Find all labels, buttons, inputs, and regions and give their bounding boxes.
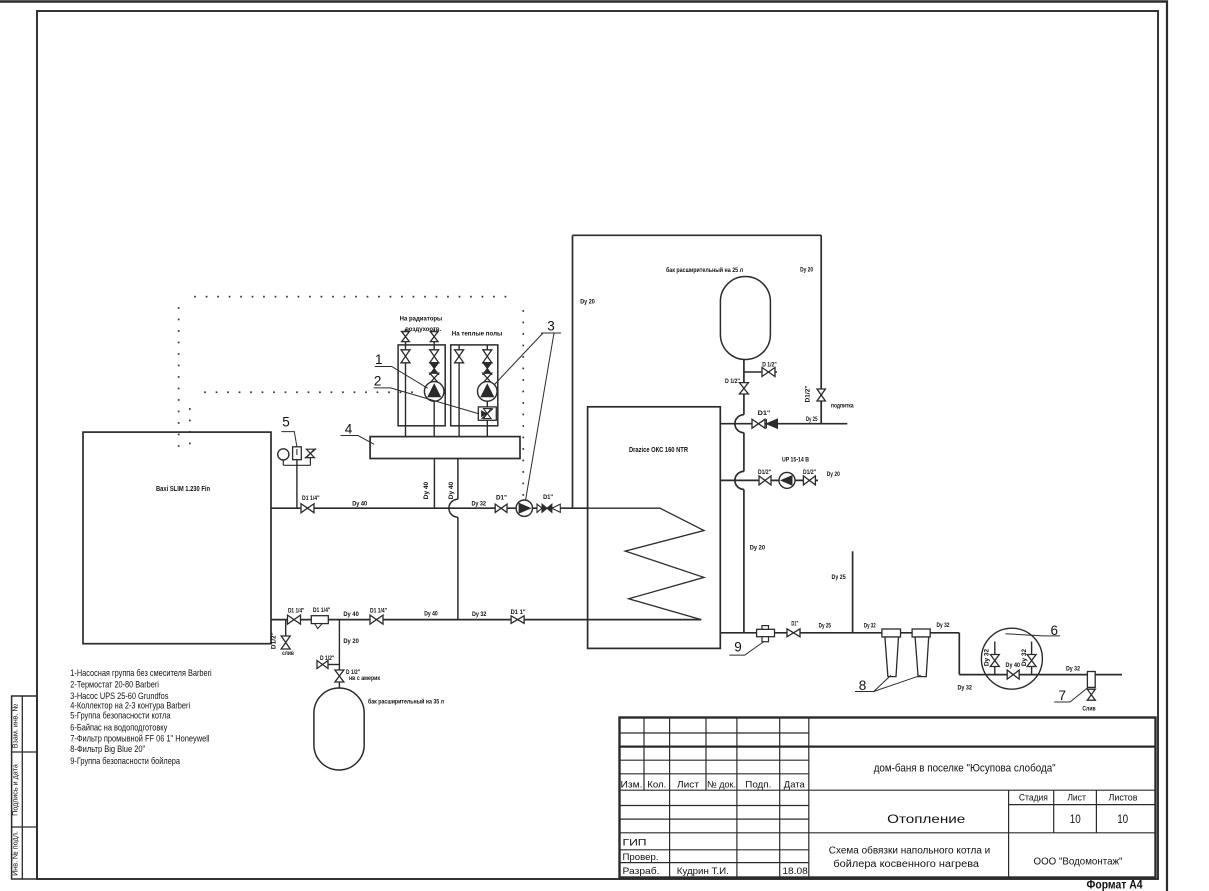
svg-text:D1 1/4": D1 1/4" xyxy=(302,495,320,502)
svg-text:нв с америк: нв с америк xyxy=(349,675,380,682)
svg-text:D1/2": D1/2" xyxy=(271,632,278,649)
svg-text:Dy 40: Dy 40 xyxy=(343,611,359,618)
svg-text:D1 1": D1 1" xyxy=(511,609,526,616)
svg-text:D 1/2": D 1/2" xyxy=(320,655,334,662)
svg-text:Dy 40: Dy 40 xyxy=(424,610,438,617)
svg-text:Инв. № подл.: Инв. № подл. xyxy=(11,831,20,876)
svg-text:8: 8 xyxy=(859,678,867,693)
svg-text:7: 7 xyxy=(1058,688,1066,703)
svg-text:Dy 25: Dy 25 xyxy=(806,416,818,423)
svg-text:Кудрин Т.И.: Кудрин Т.И. xyxy=(677,866,729,877)
svg-text:Dy 20: Dy 20 xyxy=(580,299,595,306)
svg-text:Dy 32: Dy 32 xyxy=(983,648,990,666)
svg-text:4-Коллектор на 2-3 контура Bar: 4-Коллектор на 2-3 контура Barberi xyxy=(70,700,190,710)
svg-text:Стадия: Стадия xyxy=(1019,792,1048,802)
svg-text:4: 4 xyxy=(345,422,353,437)
svg-text:Dy 40: Dy 40 xyxy=(423,481,430,499)
svg-text:Dy 20: Dy 20 xyxy=(800,267,813,274)
svg-text:Dy 32: Dy 32 xyxy=(864,622,876,629)
svg-text:D1 1/4": D1 1/4" xyxy=(288,607,305,614)
svg-text:D 1/2": D 1/2" xyxy=(762,361,777,368)
svg-text:дом-баня в поселке "Юсупова сл: дом-баня в поселке "Юсупова слобода" xyxy=(874,762,1056,774)
svg-text:Провер.: Провер. xyxy=(623,852,659,863)
svg-text:Dy 40: Dy 40 xyxy=(352,501,367,508)
svg-text:Кол.: Кол. xyxy=(647,779,666,790)
svg-text:Dy 32: Dy 32 xyxy=(957,684,972,691)
svg-text:подпитка: подпитка xyxy=(831,403,854,410)
svg-text:Dy 32: Dy 32 xyxy=(937,622,950,629)
svg-text:D1/2": D1/2" xyxy=(758,469,771,476)
svg-text:Слив: Слив xyxy=(1082,705,1095,712)
svg-text:слив: слив xyxy=(282,650,294,657)
svg-text:Dy 20: Dy 20 xyxy=(827,471,840,478)
svg-text:18.08: 18.08 xyxy=(782,866,808,877)
svg-text:5: 5 xyxy=(282,415,290,430)
svg-text:Лист: Лист xyxy=(1067,792,1086,802)
svg-text:№ док.: № док. xyxy=(707,779,736,790)
svg-text:D1": D1" xyxy=(758,410,771,417)
svg-text:2-Термостат 20-80 Barberi: 2-Термостат 20-80 Barberi xyxy=(70,680,159,690)
svg-text:Baxi SLIM 1.230 Fin: Baxi SLIM 1.230 Fin xyxy=(156,486,210,493)
svg-text:Изм.: Изм. xyxy=(621,779,643,790)
svg-text:воздухоотв.: воздухоотв. xyxy=(405,326,441,333)
svg-text:Формат А4: Формат А4 xyxy=(1087,880,1144,891)
svg-text:Dy 32: Dy 32 xyxy=(1066,666,1080,673)
svg-text:Лист: Лист xyxy=(677,779,700,790)
svg-text:2: 2 xyxy=(374,374,382,389)
svg-text:бак расширительный на 25 л: бак расширительный на 25 л xyxy=(666,266,743,274)
svg-text:Drazice ОКС 160 NTR: Drazice ОКС 160 NTR xyxy=(629,447,688,454)
svg-text:Dy 25: Dy 25 xyxy=(832,574,846,581)
svg-text:10: 10 xyxy=(1117,814,1128,826)
svg-text:ООО "Водомонтаж": ООО "Водомонтаж" xyxy=(1034,855,1123,867)
svg-text:7-Фильтр промывной FF 06 1" Ho: 7-Фильтр промывной FF 06 1" Honeywell xyxy=(70,733,209,743)
svg-text:ГИП: ГИП xyxy=(623,837,647,848)
svg-text:Взам. инв. №: Взам. инв. № xyxy=(11,703,20,748)
svg-text:Dy 32: Dy 32 xyxy=(471,501,486,508)
svg-text:D1 1/4": D1 1/4" xyxy=(313,607,331,614)
svg-text:Dy 20: Dy 20 xyxy=(343,638,359,645)
svg-text:9-Группа безопасности бойлера: 9-Группа безопасности бойлера xyxy=(70,756,180,766)
svg-text:Отопление: Отопление xyxy=(887,812,965,826)
svg-text:Схема обвязки напольного котла: Схема обвязки напольного котла и xyxy=(829,845,991,857)
svg-text:бойлера косвенного нагрева: бойлера косвенного нагрева xyxy=(833,858,979,870)
svg-text:бак расширительный на 35 л: бак расширительный на 35 л xyxy=(368,698,444,706)
svg-text:Dy 40: Dy 40 xyxy=(448,481,455,499)
svg-text:D1": D1" xyxy=(496,495,507,502)
svg-text:Dy 40: Dy 40 xyxy=(1006,662,1021,669)
svg-text:10: 10 xyxy=(1070,814,1081,826)
svg-text:Dy 20: Dy 20 xyxy=(750,544,765,551)
svg-text:6-Байпас на водоподготовку: 6-Байпас на водоподготовку xyxy=(70,722,167,732)
svg-text:На теплые полы: На теплые полы xyxy=(452,331,503,338)
svg-text:D1/2": D1/2" xyxy=(804,386,811,403)
svg-text:На радиаторы: На радиаторы xyxy=(400,315,443,322)
svg-text:8-Фильтр Big Blue 20": 8-Фильтр Big Blue 20" xyxy=(70,744,145,754)
svg-text:D1": D1" xyxy=(543,494,553,501)
svg-text:1: 1 xyxy=(375,352,383,367)
svg-text:Разраб.: Разраб. xyxy=(623,866,660,877)
svg-text:Dy 25: Dy 25 xyxy=(819,623,832,630)
svg-text:D1/2": D1/2" xyxy=(803,469,816,476)
svg-text:3: 3 xyxy=(547,319,555,334)
svg-text:1-Насосная группа без смесител: 1-Насосная группа без смесителя Barberi xyxy=(70,668,211,678)
svg-text:9: 9 xyxy=(734,640,742,655)
svg-text:D1": D1" xyxy=(791,621,798,628)
svg-text:Dy 32: Dy 32 xyxy=(1021,648,1028,666)
svg-text:D1 1/4": D1 1/4" xyxy=(370,607,387,614)
svg-text:UP 15-14 B: UP 15-14 B xyxy=(782,456,809,463)
svg-text:D 1/2": D 1/2" xyxy=(725,378,740,385)
svg-text:Подпись и дата: Подпись и дата xyxy=(11,764,20,816)
svg-text:Листов: Листов xyxy=(1109,792,1138,802)
svg-text:Dy 32: Dy 32 xyxy=(472,611,487,618)
svg-text:5-Группа безопасности котла: 5-Группа безопасности котла xyxy=(70,711,171,721)
svg-text:Дата: Дата xyxy=(784,779,806,790)
svg-text:Подп.: Подп. xyxy=(745,779,771,790)
